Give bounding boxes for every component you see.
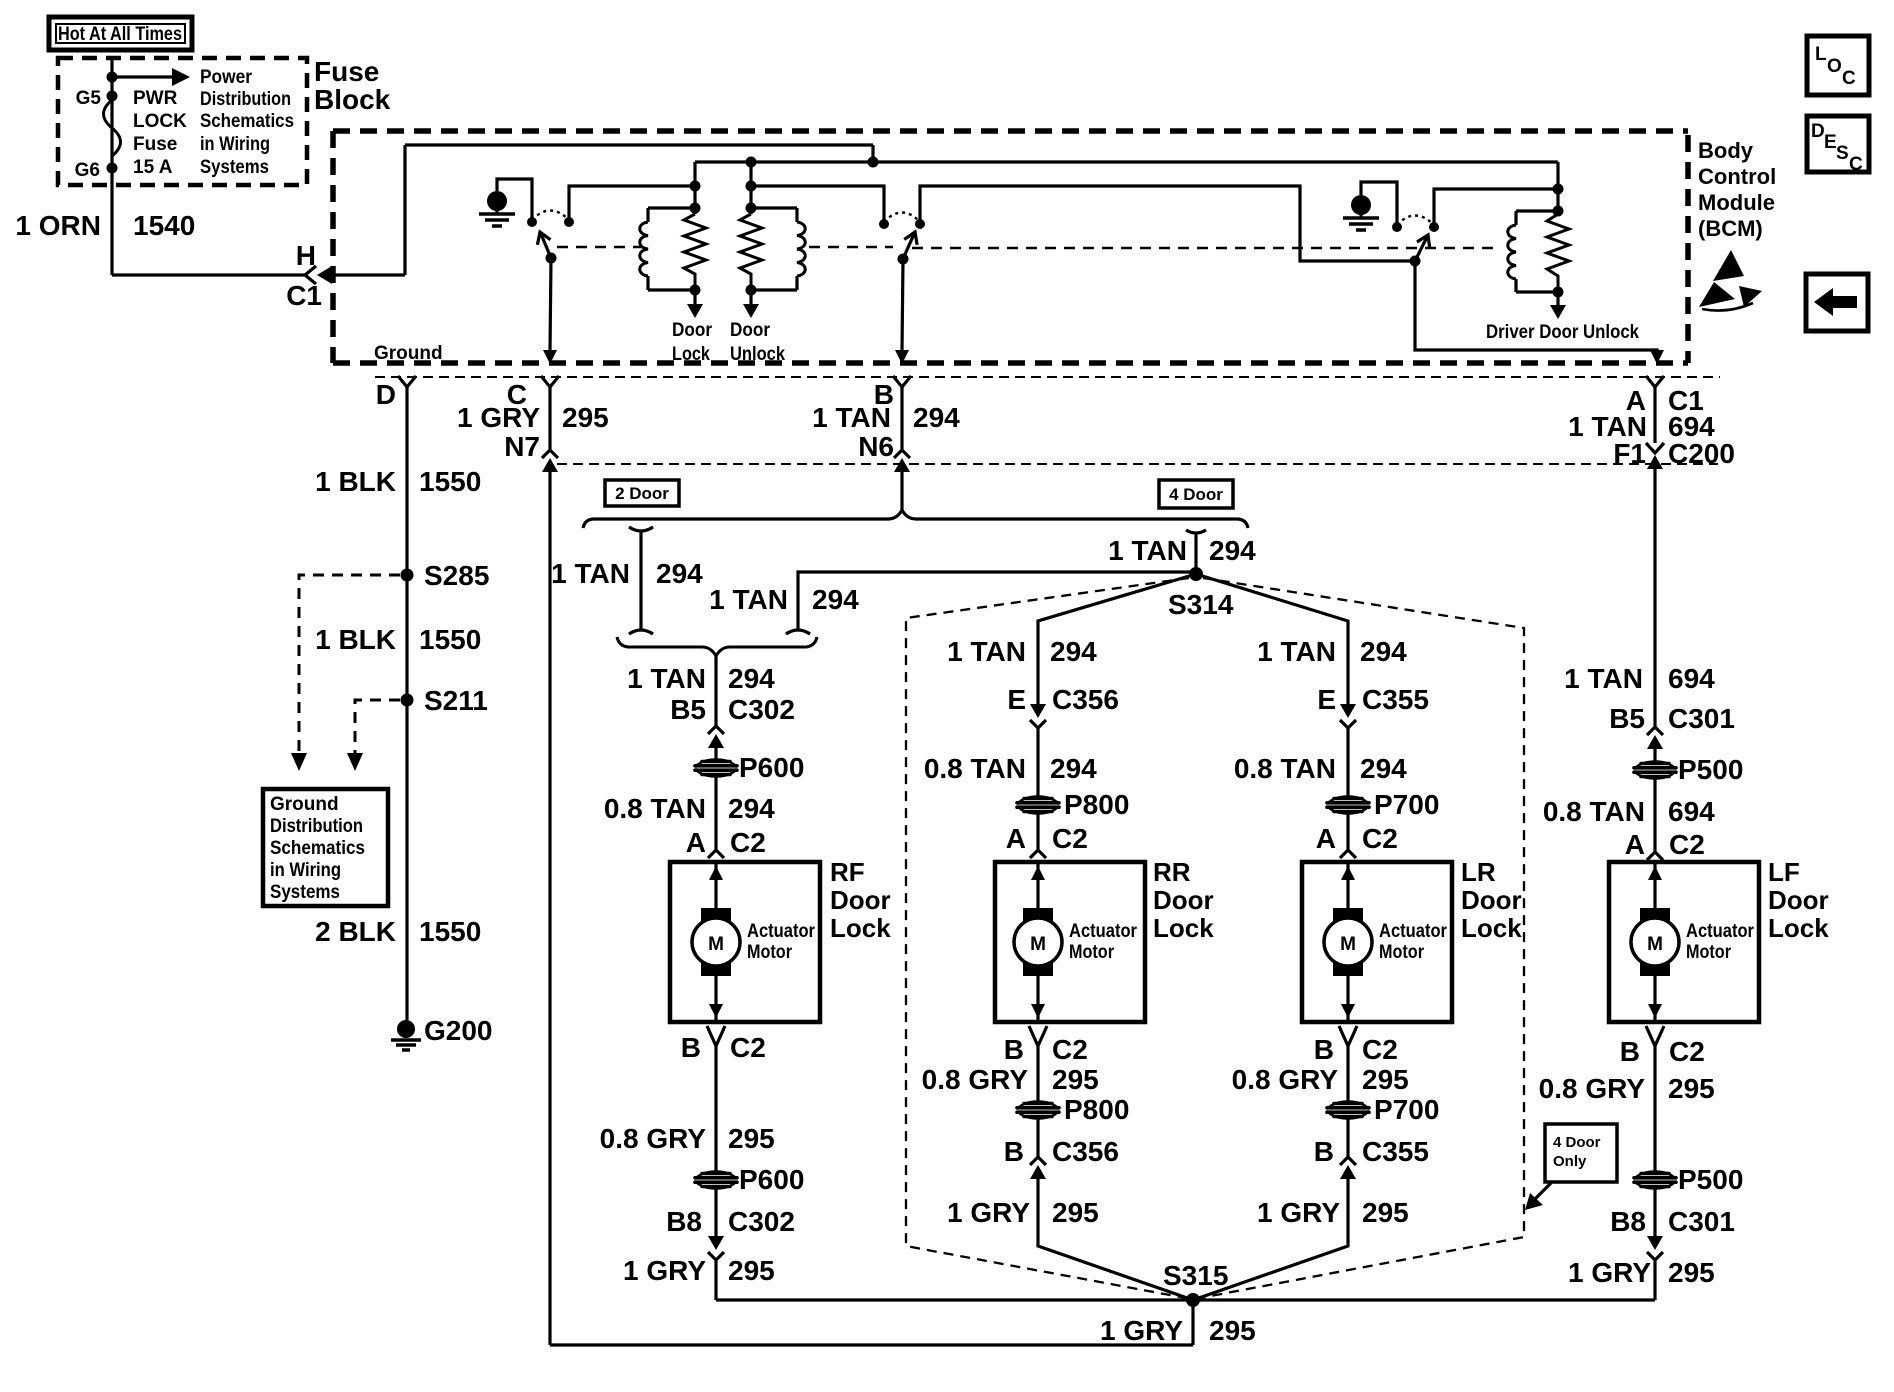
svg-text:Driver Door Unlock: Driver Door Unlock — [1486, 322, 1639, 343]
label Actuator Motor LR — [1379, 921, 1448, 963]
connector pin A fork — [1646, 376, 1664, 387]
svg-text:Door: Door — [830, 885, 891, 915]
svg-text:C2: C2 — [1362, 1034, 1398, 1065]
svg-text:Lock: Lock — [830, 913, 891, 943]
inline connector C356 (top) halves — [1030, 704, 1046, 728]
right switch pivot — [1410, 256, 1421, 267]
harness brace (bus) under N6 — [583, 510, 1248, 528]
svg-text:Motor: Motor — [1379, 942, 1425, 963]
wire label 1 ORN 1540 — [15, 210, 195, 241]
connector chevron at LF box top — [1647, 852, 1663, 860]
wire label pin E C355 (LR) — [1317, 684, 1429, 715]
svg-text:15 A: 15 A — [133, 157, 173, 178]
svg-text:S314: S314 — [1168, 589, 1234, 620]
svg-text:P700: P700 — [1374, 1094, 1439, 1125]
wire: GRY 295 return bus — [716, 1298, 1655, 1301]
svg-text:A: A — [686, 827, 706, 858]
svg-text:295: 295 — [1362, 1197, 1409, 1228]
connector fork below motor box RF — [707, 1026, 725, 1046]
svg-text:Systems: Systems — [200, 157, 269, 178]
wire label pins B5 C301 (LF) — [1609, 703, 1735, 734]
wire — [714, 776, 717, 850]
node: driver unlock coil bottom — [1553, 287, 1564, 298]
svg-text:1 TAN: 1 TAN — [1564, 663, 1643, 694]
label Actuator Motor RR — [1069, 921, 1138, 963]
connector chevron at LR box top — [1340, 850, 1356, 858]
connector fork below motor box LR — [1339, 1026, 1357, 1046]
inline connector C200 fork and arrow — [1646, 443, 1664, 469]
middle switch contact right — [915, 219, 925, 229]
ground distribution schematics note box — [263, 789, 388, 906]
wire label pin A C2 (LR) — [1316, 823, 1398, 854]
svg-text:1550: 1550 — [419, 466, 481, 497]
svg-text:P600: P600 — [739, 752, 804, 783]
svg-text:295: 295 — [728, 1255, 775, 1286]
svg-text:LOCK: LOCK — [133, 111, 187, 132]
svg-text:C2: C2 — [730, 827, 766, 858]
left switch pivot — [546, 253, 557, 264]
2 Door tag box — [605, 480, 679, 506]
svg-text:1 BLK: 1 BLK — [315, 624, 396, 655]
svg-text:Hot At All Times: Hot At All Times — [58, 24, 182, 45]
4 Door Only tag box with arrow — [1525, 1124, 1617, 1210]
svg-text:294: 294 — [1050, 636, 1097, 667]
motor RF internal lead with arrows — [709, 862, 723, 1022]
dashed 4-door region boundary — [906, 578, 1524, 1298]
node: door lock coil bottom — [690, 285, 701, 296]
node: line C right start — [746, 181, 757, 192]
wire label pin A C2 (RR) — [1006, 823, 1088, 854]
inline connector P700 (return) symbol — [1327, 1102, 1369, 1119]
svg-text:PWR: PWR — [133, 88, 178, 109]
door unlock relay coil L2 (inductor) — [797, 208, 805, 290]
inline connector P800 symbol — [1017, 797, 1059, 814]
svg-text:Actuator: Actuator — [747, 921, 816, 942]
wire label 0.8 TAN 694 (LF) — [1543, 796, 1715, 827]
dashed linkage coils to middle/right switch — [809, 246, 893, 249]
svg-text:2 BLK: 2 BLK — [315, 916, 396, 947]
svg-text:RR: RR — [1153, 857, 1191, 887]
fuse value labels — [133, 88, 187, 178]
svg-text:B5: B5 — [1609, 703, 1645, 734]
wire — [1036, 1118, 1039, 1157]
svg-text:Module: Module — [1698, 190, 1775, 215]
wire: right contact up and over to driver unlock coil — [1434, 189, 1558, 227]
svg-text:E: E — [1824, 132, 1837, 153]
middle switch arm with arrowhead — [903, 229, 921, 259]
label Door Lock — [672, 320, 713, 365]
wire label 1 TAN 294 (4 door feed west) — [709, 584, 859, 615]
svg-text:1 TAN: 1 TAN — [812, 402, 891, 433]
svg-text:(BCM): (BCM) — [1698, 216, 1763, 241]
wire label pin B C356 (RR) — [1004, 1136, 1119, 1167]
svg-text:Actuator: Actuator — [1379, 921, 1448, 942]
svg-text:1550: 1550 — [419, 916, 481, 947]
wire: driver unlock coil top rail — [1516, 209, 1558, 212]
pin label A and C1 — [1626, 385, 1704, 416]
left switch dotted arc — [532, 211, 569, 221]
wire: TAN 294 to RF door via C302 — [714, 656, 717, 726]
svg-text:M: M — [1030, 934, 1046, 955]
svg-text:A: A — [1316, 823, 1336, 854]
actuator motor box LR — [1302, 862, 1452, 1022]
svg-text:694: 694 — [1668, 796, 1715, 827]
wire: line B right end drop — [1556, 162, 1559, 214]
svg-text:1 GRY: 1 GRY — [623, 1255, 706, 1286]
label RR Door Lock — [1153, 857, 1214, 943]
svg-text:H: H — [296, 240, 316, 271]
svg-text:B: B — [1004, 1034, 1024, 1065]
svg-text:Block: Block — [314, 84, 391, 115]
svg-text:RF: RF — [830, 857, 865, 887]
dashed linkage middle to right switch — [912, 247, 1498, 250]
bottom tick of S314 feed drop — [786, 630, 810, 634]
right switch dotted arc — [1397, 216, 1434, 226]
connector fork below motor box LF — [1646, 1026, 1664, 1046]
wire — [1036, 728, 1039, 797]
svg-text:P500: P500 — [1678, 754, 1743, 785]
svg-text:P800: P800 — [1064, 1094, 1129, 1125]
svg-text:0.8 TAN: 0.8 TAN — [1234, 753, 1336, 784]
svg-text:N7: N7 — [504, 431, 540, 462]
wire: line B left end drop to door lock coil — [693, 162, 696, 214]
svg-text:S211: S211 — [424, 685, 488, 716]
inline connector C355 (bottom) halves — [1340, 1157, 1356, 1179]
wire: door lock coil top rail — [648, 206, 695, 209]
svg-text:1 GRY: 1 GRY — [1257, 1197, 1340, 1228]
svg-text:0.8 TAN: 0.8 TAN — [1543, 796, 1645, 827]
label Actuator Motor LF — [1686, 921, 1755, 963]
svg-text:0.8 GRY: 0.8 GRY — [600, 1123, 707, 1154]
wire label 1 GRY 295 (RR return) — [947, 1197, 1099, 1228]
svg-text:M: M — [1647, 934, 1663, 955]
dashed reference from S285 to ground distribution — [291, 575, 400, 771]
svg-text:C356: C356 — [1052, 684, 1119, 715]
svg-text:1 TAN: 1 TAN — [709, 584, 788, 615]
wire: drop from line A to line B — [871, 145, 874, 162]
wire label 0.8 TAN 294 (LR) — [1234, 753, 1407, 784]
svg-text:0.8 GRY: 0.8 GRY — [922, 1064, 1029, 1095]
svg-text:B: B — [1620, 1036, 1640, 1067]
back arrow box — [1806, 274, 1868, 331]
svg-text:Door: Door — [1153, 885, 1214, 915]
door lock output arrow — [687, 290, 703, 318]
actuator motor box RF — [670, 862, 820, 1022]
svg-text:P700: P700 — [1374, 789, 1439, 820]
door unlock output arrow — [743, 290, 759, 318]
wire label 1 TAN 294 (RF feed) — [627, 663, 775, 694]
node G6 — [107, 163, 118, 174]
svg-text:B8: B8 — [1610, 1206, 1646, 1237]
wire: pin B down to N6 connector — [900, 387, 903, 450]
inline connector N6 chevron and arrow — [894, 450, 910, 472]
motor LR symbol — [1324, 908, 1372, 976]
wire label 1 TAN 294 (RR feed) — [947, 636, 1097, 667]
svg-text:0.8 GRY: 0.8 GRY — [1539, 1073, 1646, 1104]
wire: pin D ground lead — [405, 387, 408, 1020]
inline connector P600 symbol — [695, 760, 737, 777]
ground symbol (right switch common) — [1343, 195, 1379, 230]
inline connector C301 (bottom) halves — [1647, 1236, 1663, 1260]
svg-text:1 TAN: 1 TAN — [1257, 636, 1336, 667]
svg-text:294: 294 — [812, 584, 859, 615]
svg-text:Unlock: Unlock — [730, 344, 785, 365]
svg-text:295: 295 — [1209, 1315, 1256, 1346]
svg-text:294: 294 — [728, 663, 775, 694]
svg-text:Lock: Lock — [1768, 913, 1829, 943]
svg-text:C356: C356 — [1052, 1136, 1119, 1167]
4 Door tag box — [1159, 480, 1233, 508]
svg-text:C200: C200 — [1668, 438, 1735, 469]
svg-text:295: 295 — [1362, 1064, 1409, 1095]
wire: middle switch pivot to BCM output B with arrow — [895, 259, 909, 364]
wire: BCM switch feed bus (line B) — [695, 160, 1558, 163]
svg-text:LF: LF — [1768, 857, 1800, 887]
wire label 1 GRY 295 (RF return) — [623, 1255, 775, 1286]
wire: S314 feed west segment — [798, 572, 1194, 630]
splice S314 — [1189, 567, 1203, 581]
wire label 0.8 GRY 295 (LR) — [1232, 1064, 1409, 1095]
door lock relay coil R1 (resistor) — [684, 214, 706, 290]
wire label 1 TAN 294 (LR feed) — [1257, 636, 1407, 667]
lock/unlock switch (left) contact left — [527, 217, 537, 227]
inline connector C302 (bottom) halves — [708, 1236, 724, 1260]
node: tap to power distribution arrow — [107, 72, 118, 83]
svg-text:C: C — [1849, 154, 1863, 175]
svg-text:C1: C1 — [286, 280, 322, 311]
gathering brace above B5 C302 — [617, 637, 817, 656]
svg-text:Distribution: Distribution — [200, 89, 291, 110]
fuse block dashed box — [58, 58, 307, 185]
door lock relay coil L1 (inductor) — [640, 208, 648, 290]
splice S285 — [401, 569, 414, 582]
inline connector C301 (top) halves — [1647, 727, 1663, 749]
driver door unlock coil R3 (resistor) — [1547, 214, 1569, 292]
wire: lower GRY 295 bus to pin C riser — [550, 1343, 1193, 1346]
wire label pin B C2 (RF) — [681, 1032, 766, 1063]
wire label pin B C2 (RR) — [1004, 1034, 1088, 1065]
svg-text:694: 694 — [1668, 663, 1715, 694]
wire: arrow to Power Distribution Schematics — [112, 68, 190, 86]
svg-text:C355: C355 — [1362, 684, 1429, 715]
svg-text:S285: S285 — [424, 560, 489, 591]
node: door lock coil top — [690, 203, 701, 214]
wire label 0.8 GRY 295 (LF) — [1539, 1073, 1715, 1104]
motor LF internal lead with arrows — [1648, 862, 1662, 1022]
wire label pins B8 C302 (RF) — [666, 1206, 795, 1237]
svg-text:Schematics: Schematics — [200, 111, 294, 132]
actuator motor box LF — [1609, 862, 1759, 1022]
svg-text:295: 295 — [562, 402, 609, 433]
svg-text:Systems: Systems — [270, 882, 340, 903]
svg-text:0.8 TAN: 0.8 TAN — [604, 793, 706, 824]
connector H C1 female chevron — [305, 266, 316, 284]
inline connector P500 (return) symbol — [1634, 1172, 1676, 1189]
svg-text:Motor: Motor — [1069, 942, 1115, 963]
node G5 — [107, 91, 118, 102]
svg-text:1 TAN: 1 TAN — [947, 636, 1026, 667]
svg-text:4 Door: 4 Door — [1553, 1134, 1601, 1151]
svg-text:1 TAN: 1 TAN — [1108, 535, 1187, 566]
dashed reference from S211 to ground distribution — [347, 700, 400, 771]
svg-text:295: 295 — [1052, 1197, 1099, 1228]
label Door Unlock — [730, 320, 785, 365]
svg-text:Actuator: Actuator — [1069, 921, 1138, 942]
svg-text:Actuator: Actuator — [1686, 921, 1755, 942]
svg-text:Ground: Ground — [270, 794, 339, 815]
driver door unlock coil L3 (inductor) — [1508, 211, 1516, 292]
wire label 1 TAN 294 (pin B) — [812, 402, 960, 433]
wire: door lock coil bottom rail — [648, 288, 695, 291]
wire — [1653, 1188, 1656, 1236]
wire: battery feed inside fuse block — [110, 58, 113, 275]
splice S211 — [401, 694, 414, 707]
connector H C1 male arrow — [317, 266, 405, 284]
connector pin D fork — [398, 376, 416, 387]
inline connector P800 (return) symbol — [1017, 1102, 1059, 1119]
wire label 1 TAN 694 (LF feed) — [1564, 663, 1715, 694]
svg-text:A: A — [1625, 829, 1645, 860]
wire — [714, 1046, 717, 1172]
wire: GRY 295 RR to S315 — [1038, 1179, 1193, 1300]
svg-text:Door: Door — [672, 320, 713, 341]
wire label 0.8 GRY 295 (RR) — [922, 1064, 1099, 1095]
svg-text:1 BLK: 1 BLK — [315, 466, 396, 497]
svg-text:B: B — [1314, 1136, 1334, 1167]
wire: middle switch right contact east run — [920, 186, 1415, 261]
wire: line B to door unlock coil — [749, 162, 752, 214]
wire label pin A C2 (LF) — [1625, 829, 1705, 860]
wire: pin A down through C200 connector — [1653, 387, 1656, 443]
wire — [1036, 813, 1039, 850]
svg-text:C302: C302 — [728, 1206, 795, 1237]
svg-text:294: 294 — [1209, 535, 1256, 566]
connector row C200 thin dashed line — [557, 463, 1718, 465]
wire — [1653, 778, 1656, 852]
wire — [1346, 1118, 1349, 1157]
svg-text:Fuse: Fuse — [314, 56, 379, 87]
svg-text:1540: 1540 — [133, 210, 195, 241]
wire: left switch right contact to coil feed (line C left) — [569, 186, 695, 222]
inline connector P600 (return) symbol — [695, 1172, 737, 1189]
svg-text:1 GRY: 1 GRY — [457, 402, 540, 433]
svg-text:294: 294 — [1050, 753, 1097, 784]
wire: BCM internal feed bus (line A) — [405, 143, 873, 146]
svg-text:Only: Only — [1553, 1153, 1587, 1170]
lock/unlock switch (left) contact right — [564, 217, 574, 227]
connector pin C fork — [541, 376, 559, 387]
wire — [714, 748, 717, 760]
wire: door unlock coil bottom rail — [751, 288, 797, 291]
svg-text:D: D — [376, 379, 396, 410]
wire: GRY 295 long riser to lower bus — [548, 470, 551, 1345]
inline connector P500 symbol — [1634, 762, 1676, 779]
Fuse Block title — [314, 56, 391, 115]
wire — [1036, 1046, 1039, 1102]
2 door segment bracket — [629, 527, 653, 634]
middle switch contact left — [879, 219, 889, 229]
svg-text:in Wiring: in Wiring — [200, 134, 270, 155]
svg-text:Lock: Lock — [1153, 913, 1214, 943]
svg-text:Lock: Lock — [1461, 913, 1522, 943]
driver door unlock output arrow — [1550, 292, 1566, 319]
svg-text:1 TAN: 1 TAN — [627, 663, 706, 694]
svg-text:295: 295 — [1052, 1064, 1099, 1095]
node: line B meets contact feed — [1553, 184, 1564, 195]
svg-text:1550: 1550 — [419, 624, 481, 655]
svg-text:2 Door: 2 Door — [615, 484, 669, 503]
node: door unlock coil top — [746, 203, 757, 214]
wire: GRY 295 RF to bus — [714, 1260, 717, 1300]
svg-text:C302: C302 — [728, 694, 795, 725]
connector fork below motor box RR — [1029, 1026, 1047, 1046]
middle switch dotted arc — [884, 213, 920, 223]
svg-text:B: B — [681, 1032, 701, 1063]
svg-text:Body: Body — [1698, 138, 1754, 163]
inline connector N7 chevron and arrow — [542, 450, 558, 472]
node: driver unlock coil top — [1553, 206, 1564, 217]
inline connector P700 symbol — [1327, 797, 1369, 814]
svg-text:C2: C2 — [1669, 1036, 1705, 1067]
wire label 1 GRY 295 (LF return) — [1568, 1257, 1715, 1288]
svg-text:Power: Power — [200, 67, 253, 88]
svg-text:P500: P500 — [1678, 1164, 1743, 1195]
wire: TAN 694 riser to LF door — [1653, 467, 1656, 727]
inline connector C356 (bottom) halves — [1030, 1157, 1046, 1179]
dashed linkage left switch to coils — [557, 246, 643, 249]
node: door unlock coil bottom — [746, 285, 757, 296]
svg-text:P800: P800 — [1064, 789, 1129, 820]
svg-text:M: M — [708, 934, 724, 955]
svg-text:Ground: Ground — [374, 343, 443, 364]
wire: left switch pivot to BCM output C with arrow — [543, 258, 557, 364]
svg-text:B: B — [1004, 1136, 1024, 1167]
wire: driver unlock coil bottom rail — [1516, 290, 1558, 293]
svg-text:A: A — [1006, 823, 1026, 854]
label Actuator Motor RF — [747, 921, 816, 963]
svg-text:294: 294 — [1360, 636, 1407, 667]
DESC reference box — [1807, 116, 1869, 175]
node: line C at door lock coil — [690, 181, 701, 192]
wire label pin B C355 (LR) — [1314, 1136, 1429, 1167]
svg-text:Schematics: Schematics — [270, 838, 365, 859]
wire: ORN 1540 feed to BCM connector H/C1 — [112, 273, 307, 276]
svg-text:Door: Door — [1768, 885, 1829, 915]
label LR Door Lock — [1461, 857, 1522, 943]
wire: ground to left switch contact — [497, 179, 532, 222]
inline connector C355 (top) halves — [1340, 704, 1356, 728]
motor RR internal lead with arrows — [1031, 862, 1045, 1022]
connector row C1 thin dashed line — [375, 376, 1720, 378]
svg-text:295: 295 — [728, 1123, 775, 1154]
wire label pins B8 C301 (LF) — [1610, 1206, 1735, 1237]
inline connector C302 (top) halves — [708, 726, 724, 748]
svg-text:1 ORN: 1 ORN — [15, 210, 101, 241]
svg-text:N6: N6 — [858, 431, 894, 462]
label RF Door Lock — [830, 857, 891, 943]
middle switch pivot — [898, 254, 909, 265]
svg-text:Door: Door — [730, 320, 771, 341]
svg-text:O: O — [1827, 56, 1842, 77]
actuator motor box RR — [995, 862, 1145, 1022]
svg-text:D: D — [1811, 121, 1825, 142]
svg-text:S315: S315 — [1163, 1260, 1228, 1291]
svg-text:L: L — [1815, 44, 1827, 65]
right switch contact right — [1429, 222, 1439, 232]
wire: pin C down to N7 connector — [548, 387, 551, 450]
svg-text:F1: F1 — [1613, 438, 1646, 469]
svg-text:C301: C301 — [1668, 703, 1735, 734]
